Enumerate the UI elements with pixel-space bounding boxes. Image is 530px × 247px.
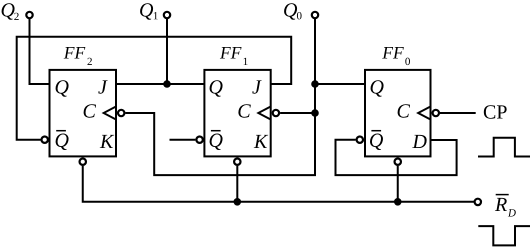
wire Q2 terminal to FF2 pin Q (30, 18, 50, 84)
flip-flop FF0 box (365, 70, 431, 156)
positive pulse waveform symbol (478, 138, 530, 157)
FF0 clock bubble (433, 110, 439, 116)
terminal RD (475, 199, 481, 205)
label Q1 (140, 3, 158, 19)
wire Q1 terminal down to node on J2 wire (166, 18, 168, 84)
wire net Q0: terminal down, bottom run, up into FF2 pin C (125, 18, 315, 175)
wire net FF2 Qbar: left, up, across top, down to FF1 pin J (17, 37, 292, 140)
terminal Q0 (312, 12, 318, 18)
wire CP input to FF0 clock bubble (440, 112, 476, 114)
terminal Q1 (164, 12, 170, 18)
wire FF1 pin C to node Q0 (280, 112, 315, 114)
label CP (484, 105, 507, 118)
FF0 clock edge-trigger triangle (418, 107, 430, 120)
wire FF0 reset drop (397, 166, 399, 202)
wire FF1 Qbar stub (170, 139, 196, 141)
wire reset net: FF2 reset bubble down, across to RD terminal (83, 166, 474, 202)
FF1 clock bubble (273, 110, 279, 116)
FF1 reset bubble (234, 159, 240, 165)
junction node Q0 / FF0 Q (311, 80, 319, 88)
flip-flop FF1 box (204, 70, 270, 156)
junction node Q1 / FF2 J (163, 80, 171, 88)
FF2 reset bubble (80, 159, 86, 165)
FF1 pin label Qbar glyph and overline (210, 131, 223, 150)
label FF0 (382, 47, 410, 65)
FF1 pin label Q (210, 80, 223, 96)
wire FF1 reset drop (236, 166, 238, 202)
FF0 Qbar bubble (357, 137, 363, 143)
flip-flop FF2 box (50, 70, 117, 156)
label RD overline (496, 194, 509, 196)
terminal Q2 (26, 12, 32, 18)
label RD (495, 198, 516, 217)
label FF2 (64, 47, 92, 65)
FF2 clock bubble (118, 110, 124, 116)
label FF1 (220, 47, 248, 65)
wire FF0 Qbar to pin D feedback loop (336, 140, 457, 175)
FF0 reset bubble (395, 159, 401, 165)
FF0 pin label Qbar glyph and overline (370, 131, 383, 150)
FF2 pin label C (84, 104, 96, 117)
FF2 pin label Q (56, 80, 69, 96)
negative pulse waveform symbol (478, 226, 530, 245)
FF1 pin label C (238, 104, 250, 117)
FF1 Qbar bubble (196, 137, 202, 143)
wire FF0 pin Q to node Q0 (315, 83, 365, 85)
FF0 pin label Q (371, 80, 384, 96)
FF2 pin label K (100, 135, 114, 148)
label Q0 (284, 3, 301, 19)
FF1 pin label J (252, 80, 261, 93)
wire FF2 pin J to FF1 pin Q (116, 83, 204, 85)
FF0 pin label D (412, 135, 426, 148)
FF1 pin label K (254, 135, 268, 148)
FF2 pin label Qbar glyph and overline (56, 131, 69, 150)
FF1 clock edge-trigger triangle (258, 107, 270, 120)
junction node RD / FF1 reset (234, 198, 242, 206)
FF2 Qbar bubble (42, 137, 48, 143)
FF0 pin label C (398, 104, 410, 117)
FF2 pin label J (98, 80, 107, 93)
label Q2 (2, 3, 19, 20)
junction node Q0 / FF1 C (311, 109, 319, 117)
junction node RD / FF0 reset (394, 198, 402, 206)
FF2 clock edge-trigger triangle (104, 107, 116, 120)
